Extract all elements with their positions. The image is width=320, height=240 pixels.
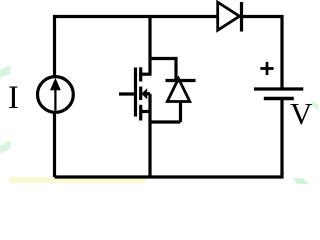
transistor Q1: body stub — [146, 92, 150, 95]
diode D1 (series diode): triangle — [218, 2, 240, 30]
wire: battery negative down to bottom-right corner and bottom rail — [55, 99, 283, 178]
battery V1: negative plate short bar — [264, 97, 294, 100]
wire: branch from drain to body diode D2 cathode — [150, 59, 176, 80]
transistor Q1: drain stub — [141, 73, 152, 76]
wire: drain riser from top rail down to Q1 drain — [148, 17, 151, 75]
transistor Q1: channel bottom segment — [139, 105, 142, 121]
current source I1: arrow shaft — [54, 88, 56, 111]
wire: from D1 cathode to top-right corner down to battery — [242, 17, 283, 90]
current source I1: arrow head — [50, 78, 61, 90]
wire: source lead down to bottom rail — [148, 94, 151, 177]
diode D2 (body diode): cathode bar — [166, 79, 196, 82]
svg-text:V: V — [290, 96, 313, 131]
current source I1: circle — [38, 77, 74, 113]
transistor Q1: channel middle segment — [139, 87, 142, 101]
battery V1: plus sign — [260, 62, 273, 75]
transistor Q1: channel top segment — [139, 67, 142, 81]
transistor Q1: gate lead wire — [119, 92, 136, 95]
wire: branch from body diode D2 anode to source lead — [150, 120, 181, 123]
battery V1: positive plate long bar — [254, 87, 303, 90]
transistor Q1: body arrow head — [141, 88, 147, 99]
transistor Q1: gate bar — [134, 68, 137, 117]
diode D2 (body diode): triangle — [167, 79, 190, 102]
svg-text:I: I — [8, 80, 19, 116]
wire: top rail from left corner to diode D1 anode — [55, 17, 218, 78]
diode D2 (body diode): anode lead — [179, 102, 182, 123]
transistor Q1: source stub — [141, 110, 150, 113]
diode D1 (series diode): cathode bar — [240, 2, 243, 32]
wire: bottom-left riser from bottom rail up to current source — [53, 112, 56, 177]
